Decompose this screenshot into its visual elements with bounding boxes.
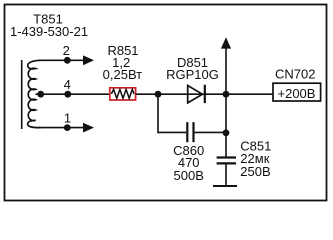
svg-text:500В: 500В (174, 168, 204, 183)
svg-text:CN702: CN702 (275, 67, 315, 82)
arrow up to B+ line (221, 37, 231, 48)
resistor R851 red highlight box (110, 88, 136, 100)
pin 1 wire (39, 127, 85, 129)
transformer T851 label (10, 12, 88, 40)
svg-text:0,25Вт: 0,25Вт (103, 67, 143, 82)
pin 4 junction dot (64, 91, 71, 98)
capacitor C860 labels (173, 143, 204, 183)
transformer T851 core (21, 60, 23, 129)
capacitor C860 plates (187, 122, 193, 142)
svg-text:RGP10G: RGP10G (166, 67, 219, 82)
svg-text:1: 1 (64, 110, 71, 125)
pin 4 tap junction dot (37, 91, 44, 98)
svg-text:250В: 250В (240, 164, 270, 179)
diode D851 (188, 85, 205, 103)
node junction dot after diode (223, 91, 230, 98)
pin 1 arrow (83, 123, 94, 133)
svg-text:4: 4 (64, 77, 71, 92)
node junction dot C860/C851 (223, 129, 230, 136)
resistor R851 labels (103, 43, 143, 82)
svg-text:2: 2 (63, 43, 70, 58)
svg-text:+200В: +200В (278, 86, 316, 101)
wire vertical B+ node (225, 47, 227, 157)
connector CN702 box (273, 83, 321, 101)
ground bar (213, 185, 237, 187)
transformer T851 winding (28, 60, 41, 127)
capacitor C851 plates (217, 158, 236, 164)
wire right leg of C860 (195, 131, 226, 133)
pin 1 junction dot (64, 124, 71, 131)
capacitor C851 labels (240, 139, 271, 180)
pin 2 junction dot (64, 57, 71, 64)
diode D851 labels (166, 55, 219, 82)
pin 4 wire (36, 93, 110, 95)
pin 2 wire (39, 59, 85, 61)
wire C851 lower lead (225, 164, 227, 186)
svg-text:1-439-530-21: 1-439-530-21 (10, 24, 88, 39)
pin 2 arrow (83, 55, 94, 65)
node junction dot before diode (155, 91, 162, 98)
wire resistor to diode (136, 93, 274, 95)
resistor R851 zigzag (111, 89, 134, 98)
wire left leg of C860 (158, 94, 186, 132)
